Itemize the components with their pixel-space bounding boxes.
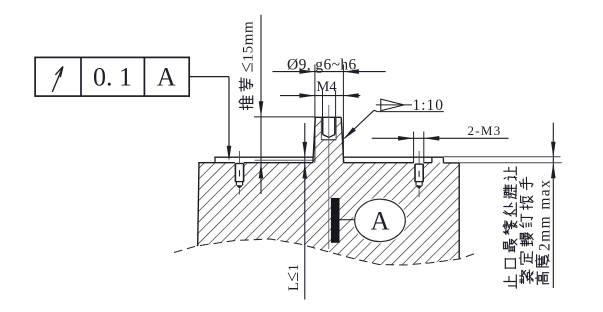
- arrow up at mounting surface: [259, 163, 264, 179]
- set screw 1 center dash: [239, 170, 241, 176]
- extension/hole line left of M3 screw: [413, 132, 415, 163]
- boss left tapered side: [313, 117, 315, 162]
- set screw 2 right side: [422, 164, 424, 182]
- leader bar to datum circle: [340, 219, 355, 221]
- set screw 2 narrow right: [421, 182, 423, 186]
- leader from FCF to top surface: [189, 77, 231, 162]
- set screw 2 center dash: [418, 171, 420, 177]
- runout symbol arrow in FCF cell 1: [52, 67, 63, 92]
- plate top thin extension right: [443, 156, 560, 158]
- dimension line rim height 2mm: [552, 123, 554, 288]
- set screw 1 shoulder: [235, 181, 244, 183]
- dimension line recommended height: [260, 15, 262, 194]
- arrow down at plate top: [303, 142, 308, 158]
- freehand break line (dashed): [174, 239, 478, 265]
- block right edge: [458, 163, 460, 259]
- set screw 2 narrow left: [415, 182, 417, 186]
- dimension line L<=1 (plate seating gap): [304, 123, 306, 300]
- arrow right-pointing M4: [299, 93, 315, 98]
- extension/hole line right of M3 screw: [423, 132, 425, 163]
- extension line M4 right: [335, 90, 337, 117]
- dimension line 2-M3: [372, 137, 509, 139]
- taper symbol triangle: [381, 99, 404, 111]
- arrow down at plate top right: [551, 142, 556, 158]
- M4 tapped hole right wall (thick): [334, 117, 336, 134]
- top surface left segment: [198, 162, 235, 164]
- svg-text:0. 1: 0. 1: [93, 63, 132, 92]
- svg-text:2mm max: 2mm max: [537, 179, 554, 251]
- set screw 1 left side: [234, 164, 236, 182]
- set screw 2 left side: [414, 164, 416, 182]
- note column: jinding luoding banshou (rotated): [520, 270, 533, 283]
- set screw 2 cone point: [416, 186, 423, 190]
- taper leader with arrow: [343, 110, 377, 139]
- arrow right-pointing at left ext: [299, 69, 315, 74]
- plate top surface left part: [214, 156, 313, 158]
- arrow left-pointing at right ext: [343, 69, 359, 74]
- svg-text:≤15mm: ≤15mm: [237, 21, 258, 73]
- label tuijian <=15mm (rotated): [237, 21, 258, 110]
- feature control frame (circular runout | 0.1 | A): [35, 57, 189, 96]
- extension line M4 left: [322, 90, 324, 117]
- set screw 1 right side: [243, 164, 245, 182]
- extension line right (boss dia): [342, 65, 344, 163]
- boss right tapered side: [341, 117, 344, 162]
- extension line of boss top: [254, 116, 315, 118]
- notch left wall: [431, 158, 433, 163]
- dimension line dia9 g6~h6: [273, 71, 386, 73]
- boss top edge: [315, 116, 341, 118]
- extension line left (boss dia): [314, 65, 316, 163]
- set screw 2 shoulder: [415, 181, 424, 183]
- svg-text:2-M3: 2-M3: [468, 123, 502, 138]
- arrow down at boss-top extension: [259, 101, 264, 117]
- taper reference line: [378, 111, 444, 113]
- svg-text:Ø9, g6~h6: Ø9, g6~h6: [287, 57, 357, 74]
- plate top surface right part: [344, 156, 443, 158]
- top surface right of boss: [343, 162, 414, 164]
- set screw 2 centerline above: [418, 151, 420, 164]
- notch right wall: [442, 158, 444, 163]
- datum target bar (solid): [331, 198, 340, 243]
- note column: zhikou zuai chu rangbi (rotated): [504, 275, 517, 288]
- ledge under plate right: [443, 162, 459, 164]
- top surface to notch: [424, 162, 432, 164]
- top surface segment between screws: [244, 162, 313, 164]
- plate bottom gray line (gap L): [254, 159, 313, 161]
- block left edge: [198, 162, 199, 246]
- arrow left-pointing M4: [343, 93, 359, 98]
- M4 thread major right (thin): [335, 117, 337, 140]
- label L<=1 (rotated): [282, 264, 302, 292]
- set screw 1 narrow right: [242, 182, 244, 186]
- svg-text:M4: M4: [316, 79, 337, 95]
- M4 drill cone: [323, 135, 335, 138]
- set screw 1 centerline above: [238, 151, 240, 164]
- set screw 1 cone point: [236, 185, 243, 189]
- M4 thread major left (thin): [320, 117, 322, 140]
- set screw 2 top face: [415, 163, 423, 165]
- plate bottom right extension: [459, 162, 562, 164]
- set screw 1 narrow left: [235, 182, 237, 186]
- plate left foot edge: [214, 157, 216, 163]
- arrow up at surface: [303, 163, 308, 179]
- set screw 1 top face: [235, 163, 243, 165]
- boss/hole centerline: [328, 105, 330, 249]
- arrow left-pointing 2-M3: [424, 136, 440, 141]
- svg-text:A: A: [157, 63, 176, 92]
- arrow up at plate bottom right: [551, 163, 556, 179]
- svg-text:A: A: [371, 207, 390, 236]
- dimension line M4: [280, 95, 360, 97]
- M4 hole bottom: [321, 139, 336, 141]
- datum circle A: [355, 199, 406, 241]
- M4 tapped hole left wall (thick): [322, 117, 324, 134]
- note column: gaodu 2mm max (rotated): [536, 179, 554, 285]
- svg-text:L≤1: L≤1: [282, 264, 302, 292]
- svg-text:1:10: 1:10: [413, 97, 445, 114]
- arrow right-pointing 2-M3: [398, 136, 414, 141]
- set screw 2 centerline below: [418, 190, 420, 198]
- set screw 1 centerline below: [238, 189, 240, 194]
